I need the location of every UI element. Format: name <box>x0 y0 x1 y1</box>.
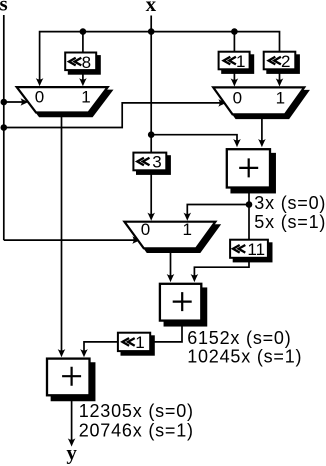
svg-text:0: 0 <box>35 87 44 106</box>
arrow into right mux select <box>218 99 226 107</box>
arrow into adder U1 left input <box>233 139 241 147</box>
shifter SH2 <box>264 52 299 73</box>
shifter SH1 <box>219 52 254 73</box>
arrow into bottom mux input 1 <box>184 213 192 221</box>
arrow into left mux select <box>21 98 29 106</box>
svg-text:3: 3 <box>152 153 161 172</box>
wire x to adder U1 left input <box>151 135 237 142</box>
arrow into bottom mux select <box>132 236 140 244</box>
junction dot x-adder U1 <box>148 131 155 138</box>
svg-text:1: 1 <box>81 87 90 106</box>
arrow into left mux input 0 <box>36 78 44 86</box>
svg-text:0: 0 <box>141 220 150 239</box>
svg-text:s: s <box>0 0 8 16</box>
arrow into adder U2 left input <box>167 274 175 282</box>
svg-text:y: y <box>66 441 77 465</box>
wire adder U2 output to shifter SH1B <box>151 322 182 342</box>
wire adder U3 output y <box>71 397 73 441</box>
wire top rail <box>40 32 280 81</box>
wire bottom mux output to adder U2 left input <box>170 248 172 276</box>
svg-text:1: 1 <box>276 88 285 107</box>
arrow into adder U2 right input <box>191 274 199 282</box>
mux M2 right <box>213 87 308 118</box>
wire SH11 output to adder U2 right input <box>194 258 249 276</box>
svg-text:12305x (s=0): 12305x (s=0) <box>79 401 194 421</box>
mux M3 bottom <box>124 220 219 252</box>
junction dot node 3x/5x <box>246 201 253 208</box>
arrow into right mux input 0 <box>231 78 239 86</box>
wire s vertical trunk <box>3 15 5 240</box>
adder U1 <box>227 149 275 192</box>
junction dot rail-SH1 <box>231 28 238 35</box>
svg-text:5x (s=1): 5x (s=1) <box>254 212 326 232</box>
shifter SH1B <box>118 333 154 355</box>
shifter SH8 <box>65 53 100 74</box>
svg-text:6152x (s=0): 6152x (s=0) <box>187 328 291 348</box>
wire adder U1 output to shifter SH11 <box>248 188 250 240</box>
arrow into right mux input 1 <box>276 78 284 86</box>
junction dot rail-x <box>148 28 155 35</box>
svg-text:2: 2 <box>281 52 290 71</box>
arrow into left mux input 1 <box>79 78 87 86</box>
svg-text:3x (s=0): 3x (s=0) <box>254 193 326 213</box>
wire s to right mux select <box>4 103 221 128</box>
arrow into adder U3 left input <box>58 349 66 357</box>
junction dot rail-SH8 <box>80 28 87 35</box>
svg-text:0: 0 <box>233 88 242 107</box>
svg-text:1: 1 <box>182 220 191 239</box>
svg-text:20746x (s=1): 20746x (s=1) <box>79 421 194 441</box>
wire rail to shifter SH8 <box>82 32 84 54</box>
wire s to left mux select <box>4 101 23 103</box>
wire SH1 output to right mux input 0 <box>233 70 235 82</box>
wire SH1B output to adder U3 right input <box>84 342 118 351</box>
wire left mux output to adder U3 left input <box>61 113 63 351</box>
arrow into bottom mux input 0 <box>147 213 155 221</box>
wire node 3x/5x to bottom mux input 1 <box>187 205 249 215</box>
mux M1 left <box>17 87 112 116</box>
wire right mux output to adder U1 right input <box>261 114 263 142</box>
junction dot s-right mux select branch <box>1 124 8 131</box>
wire SH3 output to bottom mux input 0 <box>150 170 152 214</box>
arrow into adder U1 right input <box>258 139 266 147</box>
arrow into adder U3 right input <box>80 349 88 357</box>
shifter SH11 <box>230 240 271 262</box>
svg-text:x: x <box>146 0 157 16</box>
wire SH2 output to right mux input 1 <box>279 70 281 82</box>
shifter SH3 <box>133 153 170 174</box>
svg-text:1: 1 <box>135 333 144 352</box>
svg-text:8: 8 <box>82 53 91 72</box>
arrow output y <box>68 438 76 446</box>
wire rail to shifter SH1 <box>233 32 235 53</box>
svg-text:1: 1 <box>236 52 245 71</box>
junction dot s-left mux select <box>1 99 8 106</box>
svg-text:11: 11 <box>247 240 265 259</box>
wire s to bottom mux select <box>4 239 135 241</box>
svg-text:10245x (s=1): 10245x (s=1) <box>187 346 302 366</box>
wire x vertical trunk <box>150 16 152 154</box>
adder U2 <box>160 284 206 326</box>
wire SH8 output to left mux input 1 <box>82 70 84 80</box>
adder U3 <box>47 359 94 401</box>
